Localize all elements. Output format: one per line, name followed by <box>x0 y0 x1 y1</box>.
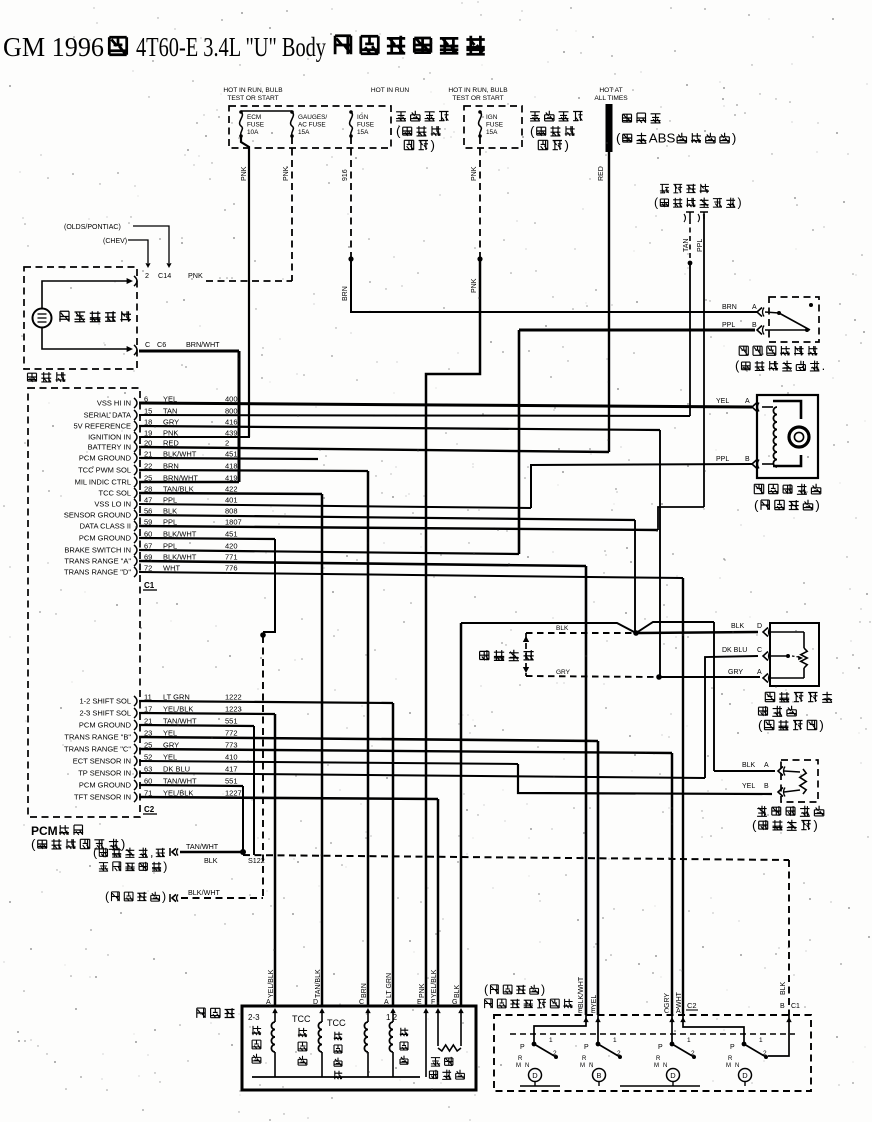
svg-text:1807: 1807 <box>225 518 242 527</box>
svg-text:FUSE: FUSE <box>486 122 503 129</box>
svg-text:C6: C6 <box>157 340 166 349</box>
svg-text:A: A <box>752 304 757 311</box>
svg-text:P: P <box>520 1044 525 1051</box>
svg-text:): ) <box>162 890 166 904</box>
svg-text:1227: 1227 <box>225 789 242 798</box>
svg-text:E: E <box>417 999 422 1006</box>
svg-text:TRANS RANGE "A": TRANS RANGE "A" <box>64 557 131 566</box>
svg-text:(: ( <box>758 717 763 732</box>
svg-text:F: F <box>431 999 435 1006</box>
svg-text:BRN/WHT: BRN/WHT <box>186 340 220 349</box>
svg-text:B: B <box>764 783 769 790</box>
svg-text:420: 420 <box>225 542 238 551</box>
svg-text:PPL: PPL <box>697 239 704 252</box>
svg-text:B: B <box>752 322 757 329</box>
svg-text:TCC: TCC <box>327 1018 346 1028</box>
svg-text:TRANS RANGE "B": TRANS RANGE "B" <box>64 733 131 742</box>
svg-text:TCC SOL: TCC SOL <box>98 489 131 498</box>
svg-text:BLK: BLK <box>742 762 756 769</box>
svg-text:YEL: YEL <box>163 753 177 762</box>
svg-text:P: P <box>658 1044 663 1051</box>
svg-text:BLK/WHT: BLK/WHT <box>578 976 585 1008</box>
svg-text:): ) <box>732 130 736 145</box>
svg-text:(: ( <box>754 497 759 512</box>
svg-text:5V REFERENCE: 5V REFERENCE <box>73 422 131 431</box>
svg-text:): ) <box>431 137 435 152</box>
svg-text:PPL: PPL <box>722 322 735 329</box>
svg-text:2: 2 <box>617 1050 621 1057</box>
svg-text:DK BLU: DK BLU <box>722 647 747 654</box>
svg-text:N: N <box>735 1063 739 1069</box>
svg-text:PNK: PNK <box>419 983 426 998</box>
svg-text:551: 551 <box>225 717 238 726</box>
svg-text:D: D <box>313 999 318 1006</box>
svg-text:E: E <box>591 1008 596 1015</box>
svg-text:1: 1 <box>687 1037 691 1044</box>
svg-text:(: ( <box>735 358 740 373</box>
svg-text:TRANS RANGE "C": TRANS RANGE "C" <box>64 745 131 754</box>
svg-text:C: C <box>757 647 762 654</box>
svg-text:PNK: PNK <box>241 166 248 181</box>
svg-text:RED: RED <box>598 166 605 181</box>
svg-text:BLK: BLK <box>731 623 745 630</box>
svg-text:HOT AT: HOT AT <box>599 87 622 94</box>
svg-text:E: E <box>578 1008 583 1015</box>
svg-text:15A: 15A <box>298 129 310 136</box>
svg-text:B: B <box>596 1071 601 1080</box>
svg-text:1: 1 <box>613 1037 617 1044</box>
svg-text:416: 416 <box>225 418 238 427</box>
svg-text:TAN: TAN <box>683 239 690 252</box>
svg-text:PPL: PPL <box>163 542 177 551</box>
svg-text:LT GRN: LT GRN <box>386 973 393 998</box>
svg-text:M: M <box>516 1063 521 1069</box>
svg-text:TRANS RANGE "D": TRANS RANGE "D" <box>64 568 131 577</box>
svg-text:(: ( <box>530 123 535 138</box>
svg-text:BLK: BLK <box>556 625 569 632</box>
svg-text:ECT SENSOR IN: ECT SENSOR IN <box>73 757 131 766</box>
svg-text:): ) <box>815 497 819 512</box>
svg-text:772: 772 <box>225 729 238 738</box>
svg-text:BLK: BLK <box>163 507 177 516</box>
svg-text:TFT SENSOR IN: TFT SENSOR IN <box>74 793 131 802</box>
svg-text:418: 418 <box>225 462 238 471</box>
svg-text:4T60-E 3.4L "U" Body: 4T60-E 3.4L "U" Body <box>136 32 326 62</box>
svg-text:1222: 1222 <box>225 693 242 702</box>
svg-text:R: R <box>728 1056 733 1062</box>
svg-text:GM 1996: GM 1996 <box>3 32 104 62</box>
svg-text:WHT: WHT <box>163 564 180 573</box>
svg-text:(: ( <box>616 130 621 145</box>
svg-text:): ) <box>163 860 167 874</box>
svg-text:800: 800 <box>225 407 238 416</box>
svg-text:C14: C14 <box>158 271 171 280</box>
svg-text:1: 1 <box>759 1037 763 1044</box>
svg-text:2: 2 <box>553 1050 557 1057</box>
svg-text:,: , <box>150 846 153 860</box>
svg-text:GAUGES/: GAUGES/ <box>298 114 327 121</box>
svg-text:1223: 1223 <box>225 705 242 714</box>
svg-text:PPL: PPL <box>716 456 729 463</box>
svg-text:C: C <box>664 1008 669 1015</box>
svg-text:): ) <box>813 817 817 832</box>
svg-text:PNK: PNK <box>471 278 478 293</box>
svg-text:): ) <box>121 836 125 851</box>
svg-text:TCC: TCC <box>292 1014 311 1024</box>
svg-text:A: A <box>745 398 750 405</box>
svg-text:D: D <box>742 1071 748 1080</box>
svg-text:C1: C1 <box>144 581 155 590</box>
svg-text:M: M <box>580 1063 585 1069</box>
svg-text:PNK: PNK <box>471 166 478 181</box>
svg-text:N: N <box>525 1063 529 1069</box>
svg-text:FUSE: FUSE <box>357 122 374 129</box>
svg-text:SENSOR GROUND: SENSOR GROUND <box>64 511 132 520</box>
svg-text:IGN: IGN <box>357 114 369 121</box>
svg-text:P: P <box>584 1044 589 1051</box>
svg-text:2: 2 <box>763 1050 767 1057</box>
svg-text:R: R <box>582 1056 587 1062</box>
svg-text:C2: C2 <box>687 1001 697 1010</box>
svg-text:D: D <box>532 1071 538 1080</box>
svg-text:A: A <box>676 1008 681 1015</box>
svg-text:BRN: BRN <box>722 304 737 311</box>
svg-text:10A: 10A <box>247 129 259 136</box>
svg-text:DK BLU: DK BLU <box>163 765 190 774</box>
svg-text:422: 422 <box>225 485 238 494</box>
svg-text:GRY: GRY <box>556 669 571 676</box>
svg-text:PPL: PPL <box>163 496 177 505</box>
svg-text:ABS: ABS <box>649 130 676 145</box>
svg-text:2-3: 2-3 <box>248 1013 260 1022</box>
svg-text:A: A <box>266 999 271 1006</box>
svg-text:B: B <box>780 1003 785 1010</box>
svg-text:TP SENSOR IN: TP SENSOR IN <box>78 769 131 778</box>
svg-text:.: . <box>822 358 826 373</box>
svg-text:M: M <box>654 1063 659 1069</box>
svg-text:551: 551 <box>225 777 238 786</box>
svg-text:808: 808 <box>225 507 238 516</box>
svg-text:TAN/WHT: TAN/WHT <box>163 717 197 726</box>
svg-text:(OLDS/PONTIAC): (OLDS/PONTIAC) <box>64 224 121 231</box>
svg-text:410: 410 <box>225 753 238 762</box>
svg-text:2: 2 <box>225 439 229 448</box>
svg-text:2: 2 <box>145 271 149 280</box>
svg-text:VSS LO IN: VSS LO IN <box>94 500 131 509</box>
svg-text:PNK: PNK <box>188 271 203 280</box>
svg-text:BRN: BRN <box>361 983 368 998</box>
svg-text:HOT IN RUN: HOT IN RUN <box>371 87 410 94</box>
svg-text:1-2 SHIFT SOL: 1-2 SHIFT SOL <box>79 697 131 706</box>
svg-text:BRN: BRN <box>342 286 349 301</box>
svg-text:SERIAL DATA: SERIAL DATA <box>84 411 131 420</box>
svg-text:PCM GROUND: PCM GROUND <box>79 534 132 543</box>
svg-text:VSS HI IN: VSS HI IN <box>97 399 131 408</box>
svg-text:(: ( <box>31 836 36 851</box>
svg-text:451: 451 <box>225 450 238 459</box>
svg-text:HOT IN RUN, BULB: HOT IN RUN, BULB <box>223 87 283 94</box>
svg-text:PCM GROUND: PCM GROUND <box>79 781 132 790</box>
svg-text:TEST OR START: TEST OR START <box>227 95 278 102</box>
svg-text:771: 771 <box>225 553 238 562</box>
svg-text:): ) <box>819 717 823 732</box>
svg-text:FUSE: FUSE <box>247 122 264 129</box>
svg-text:C: C <box>359 999 364 1006</box>
svg-text:2-3 SHIFT SOL: 2-3 SHIFT SOL <box>79 709 131 718</box>
svg-text:IGNITION IN: IGNITION IN <box>88 433 131 442</box>
svg-text:R: R <box>656 1056 661 1062</box>
svg-text:N: N <box>663 1063 667 1069</box>
svg-text:ALL TIMES: ALL TIMES <box>594 95 628 102</box>
svg-text:TEST OR START: TEST OR START <box>452 95 503 102</box>
svg-text:15A: 15A <box>357 129 369 136</box>
svg-text:D: D <box>670 1071 676 1080</box>
svg-text:): ) <box>565 137 569 152</box>
svg-text:YEL: YEL <box>742 783 755 790</box>
svg-text:C: C <box>145 340 150 349</box>
svg-text:P: P <box>730 1044 735 1051</box>
svg-text:776: 776 <box>225 564 238 573</box>
svg-text:BLK: BLK <box>204 856 218 865</box>
svg-text:HOT IN RUN, BULB: HOT IN RUN, BULB <box>448 87 508 94</box>
svg-text:S122: S122 <box>248 856 265 865</box>
svg-text:R: R <box>518 1056 523 1062</box>
svg-text:BLK: BLK <box>780 981 787 995</box>
svg-text:TCC PWM SOL: TCC PWM SOL <box>78 466 131 475</box>
svg-text:BLK/WHT: BLK/WHT <box>188 888 221 897</box>
svg-text:(CHEV): (CHEV) <box>103 238 127 245</box>
svg-text:G: G <box>452 999 457 1006</box>
svg-text:N: N <box>589 1063 593 1069</box>
svg-text:401: 401 <box>225 496 238 505</box>
svg-text:PCM GROUND: PCM GROUND <box>79 721 132 730</box>
svg-text:D: D <box>757 623 762 630</box>
svg-text:15A: 15A <box>486 129 498 136</box>
svg-text:TAN/WHT: TAN/WHT <box>186 842 219 851</box>
svg-text:A: A <box>757 669 762 676</box>
svg-text:GRY: GRY <box>664 993 671 1008</box>
svg-text:): ) <box>541 983 545 997</box>
svg-text:IGN: IGN <box>486 114 498 121</box>
svg-text:YEL/BLK: YEL/BLK <box>431 969 438 998</box>
svg-text:A: A <box>384 999 389 1006</box>
svg-text:M: M <box>726 1063 731 1069</box>
svg-text:YEL: YEL <box>716 398 729 405</box>
svg-text:WHT: WHT <box>676 991 683 1008</box>
svg-text:916: 916 <box>342 169 349 181</box>
svg-text:PNK: PNK <box>283 166 290 181</box>
svg-text:2: 2 <box>691 1050 695 1057</box>
svg-text:AC FUSE: AC FUSE <box>298 122 326 129</box>
svg-text:YEL: YEL <box>591 995 598 1008</box>
svg-text:TAN/WHT: TAN/WHT <box>163 777 197 786</box>
svg-text:MIL INDIC CTRL: MIL INDIC CTRL <box>75 478 131 487</box>
svg-text:TAN/BLK: TAN/BLK <box>315 969 322 998</box>
svg-text:BLK: BLK <box>454 984 461 998</box>
svg-text:): ) <box>737 196 741 210</box>
svg-text:YEL/BLK: YEL/BLK <box>268 969 275 998</box>
svg-text:451: 451 <box>225 530 238 539</box>
svg-text:A: A <box>764 762 769 769</box>
svg-text:417: 417 <box>225 765 238 774</box>
svg-text:BRAKE SWITCH IN: BRAKE SWITCH IN <box>64 546 131 555</box>
svg-text:773: 773 <box>225 741 238 750</box>
svg-text:GRY: GRY <box>728 669 743 676</box>
svg-text:PCM GROUND: PCM GROUND <box>79 454 132 463</box>
svg-text:(: ( <box>752 817 757 832</box>
svg-text:1: 1 <box>549 1037 553 1044</box>
svg-text:BATTERY IN: BATTERY IN <box>88 443 131 452</box>
svg-text:B: B <box>745 456 750 463</box>
svg-text:C1: C1 <box>791 1003 800 1010</box>
svg-text:1 2: 1 2 <box>386 1013 398 1022</box>
svg-text:C2: C2 <box>144 805 155 814</box>
svg-text:DATA CLASS II: DATA CLASS II <box>80 522 131 531</box>
svg-text:ECM: ECM <box>247 114 261 121</box>
